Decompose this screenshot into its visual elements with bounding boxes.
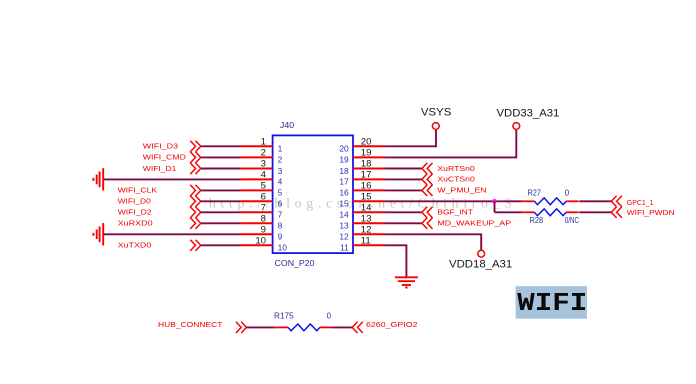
wire ground net to pin 4 [103, 178, 240, 180]
svg-text:2: 2 [278, 155, 283, 165]
pin 2 stub (left) [241, 156, 273, 158]
svg-text:19: 19 [361, 148, 372, 159]
svg-text:14: 14 [361, 202, 372, 213]
resistor R27 [521, 200, 534, 202]
power port VSYS circle [432, 123, 439, 130]
svg-text:12: 12 [339, 232, 349, 242]
off-page connector WIFI_PWDN [617, 207, 622, 218]
svg-text:J40: J40 [280, 120, 295, 130]
svg-text:WIFI_D0: WIFI_D0 [118, 197, 151, 206]
svg-text:WIFI_PWDN: WIFI_PWDN [627, 208, 675, 217]
wire net WIFI_D3 [201, 145, 241, 147]
junction node [492, 199, 497, 204]
svg-text:18: 18 [361, 159, 372, 170]
svg-text:WIFI_CMD: WIFI_CMD [143, 153, 186, 162]
wire pin15 to junction and R27 [385, 200, 521, 202]
pin 17 stub (right) [353, 178, 385, 180]
off-page connector W_PMU_EN [427, 185, 432, 196]
svg-text:0/NC: 0/NC [565, 216, 579, 225]
off-page connector 6260_GPIO2 [358, 322, 363, 333]
svg-text:17: 17 [339, 177, 349, 187]
resistor R175 [275, 326, 288, 328]
svg-text:11: 11 [361, 235, 371, 246]
wire pin11 to ground [385, 244, 406, 246]
pin 9 stub (left) [241, 233, 273, 235]
pin 8 stub (left) [241, 222, 273, 224]
svg-text:1: 1 [261, 136, 266, 147]
wire ground net to pin 9 [103, 233, 240, 235]
power port VDD33_A31 circle [513, 123, 520, 130]
pin 18 stub (right) [353, 168, 385, 170]
svg-text:9: 9 [261, 224, 266, 235]
connector J40 body [273, 135, 353, 253]
svg-text:VDD18_A31: VDD18_A31 [449, 259, 512, 271]
wire pin19 to VDD33_A31 [385, 156, 516, 158]
off-page connector XuCTSn0 [427, 174, 432, 185]
svg-text:4: 4 [261, 170, 267, 181]
wire net WIFI_CMD [201, 156, 241, 158]
svg-text:BGF_INT: BGF_INT [437, 208, 473, 217]
svg-text:XuRTSn0: XuRTSn0 [437, 164, 474, 173]
svg-text:10: 10 [255, 235, 266, 246]
off-page connector XuTXD0 [190, 240, 195, 251]
svg-text:9: 9 [278, 232, 283, 242]
wire R175 to 6260_GPIO2 [332, 326, 352, 328]
off-page connector XuRTSn0 [427, 163, 432, 174]
wire net XuRXD0 [201, 222, 241, 224]
svg-text:18: 18 [339, 166, 349, 176]
off-page connector BGF_INT [427, 207, 432, 218]
ground symbol (left, pin 9) [93, 223, 103, 245]
svg-text:10: 10 [278, 243, 288, 253]
svg-text:14: 14 [339, 210, 349, 220]
wire R27 to GPC1_1 [579, 200, 611, 202]
svg-text:6: 6 [278, 199, 283, 209]
ground symbol (left, pin 4) [93, 168, 103, 190]
svg-text:7: 7 [278, 210, 283, 220]
svg-text:R27: R27 [528, 188, 542, 197]
svg-text:XuRXD0: XuRXD0 [118, 219, 153, 228]
pin 13 stub (right) [353, 222, 385, 224]
svg-text:15: 15 [361, 191, 372, 202]
wire net W_PMU_EN [385, 189, 422, 191]
wire net WIFI_D1 [201, 168, 241, 170]
svg-text:7: 7 [261, 202, 266, 213]
svg-text:0: 0 [327, 312, 332, 321]
svg-text:16: 16 [361, 181, 372, 192]
pin 4 stub (left) [241, 178, 273, 180]
wire net XuCTSn0 [385, 178, 422, 180]
svg-text:17: 17 [361, 170, 372, 181]
pin 5 stub (left) [241, 189, 273, 191]
svg-text:5: 5 [261, 181, 266, 192]
svg-text:CON_P20: CON_P20 [275, 258, 315, 268]
off-page connector XuRXD0 [190, 218, 195, 229]
off-page connector WIFI_D3 [190, 141, 195, 152]
svg-text:13: 13 [361, 213, 372, 224]
svg-text:VSYS: VSYS [421, 107, 452, 119]
svg-text:11: 11 [340, 243, 349, 253]
pin 20 stub (right) [353, 145, 385, 147]
resistor R28 [521, 211, 534, 213]
off-page connector WIFI_CMD [190, 152, 195, 163]
svg-text:8: 8 [278, 221, 283, 231]
off-page connector GPC1_1 [617, 196, 622, 207]
off-page connector HUB_CONNECT [236, 322, 241, 333]
svg-text:R175: R175 [274, 312, 294, 321]
pin 7 stub (left) [241, 211, 273, 213]
svg-text:3: 3 [261, 159, 266, 170]
pin 1 stub (left) [241, 145, 273, 147]
svg-text:13: 13 [339, 221, 349, 231]
off-page connector WIFI_D1 [190, 163, 195, 174]
off-page connector WIFI_CLK [190, 185, 195, 196]
svg-text:MD_WAKEUP_AP: MD_WAKEUP_AP [437, 219, 511, 228]
svg-text:VDD33_A31: VDD33_A31 [497, 107, 560, 119]
svg-text:XuTXD0: XuTXD0 [118, 241, 152, 250]
power port VDD18_A31 circle [478, 250, 485, 257]
svg-text:GPC1_1: GPC1_1 [627, 198, 654, 207]
wire net WIFI_D0 [201, 200, 241, 202]
svg-text:WIFI_D1: WIFI_D1 [143, 164, 177, 173]
svg-text:0: 0 [565, 188, 570, 197]
wire HUB_CONNECT to R175 [247, 326, 275, 328]
wire junction down to R28 branch [494, 201, 496, 212]
wire net WIFI_CLK [201, 189, 241, 191]
pin 12 stub (right) [353, 233, 385, 235]
ground symbol (below connector) [395, 277, 418, 287]
wire net MD_WAKEUP_AP [385, 222, 422, 224]
pin 6 stub (left) [241, 200, 273, 202]
svg-text:2: 2 [261, 148, 266, 159]
svg-text:WIFI_CLK: WIFI_CLK [118, 186, 158, 195]
off-page connector WIFI_D2 [190, 207, 195, 218]
svg-text:WIFI_D3: WIFI_D3 [143, 142, 178, 151]
svg-text:HUB_CONNECT: HUB_CONNECT [158, 320, 223, 329]
wire net BGF_INT [385, 211, 422, 213]
svg-text:5: 5 [278, 188, 283, 198]
svg-text:6260_GPIO2: 6260_GPIO2 [366, 320, 418, 329]
svg-text:XuCTSn0: XuCTSn0 [437, 175, 474, 184]
svg-text:1: 1 [278, 144, 283, 154]
off-page connector MD_WAKEUP_AP [427, 218, 432, 229]
svg-text:R28: R28 [530, 216, 544, 225]
svg-text:3: 3 [278, 166, 283, 176]
pin 16 stub (right) [353, 189, 385, 191]
off-page connector WIFI_D0 [190, 196, 195, 207]
pin 3 stub (left) [241, 168, 273, 170]
svg-text:15: 15 [339, 199, 349, 209]
svg-text:WIFI: WIFI [517, 288, 587, 318]
pin 14 stub (right) [353, 211, 385, 213]
svg-text:6: 6 [261, 191, 266, 202]
wire R28 to WIFI_PWDN [579, 211, 611, 213]
pin 15 stub (right) [353, 200, 385, 202]
svg-text:19: 19 [339, 155, 349, 165]
svg-text:16: 16 [339, 188, 349, 198]
svg-text:20: 20 [339, 144, 349, 154]
pin 19 stub (right) [353, 156, 385, 158]
wire pin20 to VSYS [385, 145, 436, 147]
wire pin12 to VDD18_A31 [385, 233, 481, 235]
wire net XuTXD0 [201, 244, 241, 246]
WIFI title block [516, 286, 587, 319]
pin 10 stub (left) [241, 244, 273, 246]
svg-text:8: 8 [261, 213, 266, 224]
svg-text:WIFI_D2: WIFI_D2 [118, 208, 152, 217]
svg-text:12: 12 [361, 224, 372, 235]
svg-text:20: 20 [361, 136, 372, 147]
svg-text:W_PMU_EN: W_PMU_EN [437, 186, 486, 195]
wire net XuRTSn0 [385, 168, 422, 170]
svg-text:4: 4 [278, 177, 283, 187]
pin 11 stub (right) [353, 244, 385, 246]
wire net WIFI_D2 [201, 211, 241, 213]
